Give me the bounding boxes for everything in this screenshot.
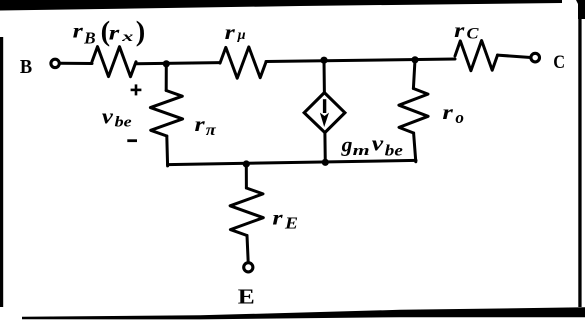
border top edge (0, 0, 562, 11)
label minus sign (127, 139, 137, 142)
wire rE bottom lead (247, 236, 248, 263)
terminal C (531, 53, 540, 62)
wire rB to rmu (136, 63, 220, 64)
svg-text:x: x (121, 30, 134, 45)
svg-text:r: r (454, 20, 464, 42)
svg-text:π: π (206, 122, 217, 139)
node dot source bottom (322, 159, 329, 166)
svg-text:C: C (553, 53, 565, 73)
resistor rC zigzag (455, 41, 498, 71)
resistor ro zigzag (399, 89, 428, 134)
node dot rE tap (243, 160, 250, 167)
wire B to rB (60, 62, 92, 65)
current source diamond (304, 93, 345, 133)
current source arrow shaft (323, 99, 326, 113)
wire source top lead (323, 60, 326, 93)
svg-text:r: r (109, 23, 120, 45)
border bottom edge (22, 307, 585, 319)
border right edge (578, 4, 581, 307)
svg-text:be: be (385, 143, 403, 160)
node dot ro top (411, 56, 418, 63)
wire rC to C (498, 55, 531, 57)
wire source bottom lead (323, 133, 326, 164)
border left edge (0, 37, 3, 307)
svg-text:v: v (372, 131, 384, 156)
resistor rE zigzag (230, 188, 263, 236)
svg-text:m: m (353, 143, 370, 159)
resistor rB zigzag (92, 47, 136, 77)
node dot source top (320, 57, 327, 64)
wire ro top lead (413, 60, 415, 89)
resistor rpi zigzag (150, 91, 182, 137)
svg-text:g: g (341, 132, 353, 156)
resistor rmu zigzag (220, 47, 266, 78)
svg-text:r: r (195, 114, 205, 136)
svg-text:B: B (20, 57, 32, 78)
wire bottom rail (168, 160, 417, 164)
svg-text:E: E (284, 213, 298, 232)
svg-text:r: r (225, 22, 235, 44)
terminal E (244, 263, 253, 272)
wire rpi top lead (165, 64, 168, 91)
wire rmu to rC (266, 59, 455, 62)
wire rpi bottom lead (165, 136, 169, 166)
svg-text:C: C (467, 25, 480, 42)
svg-text:r: r (272, 207, 282, 229)
current source arrowhead (320, 113, 329, 127)
border top-right corner (576, 0, 585, 19)
wire ro bottom lead (414, 133, 416, 162)
terminal B (51, 59, 59, 67)
svg-text:r: r (73, 20, 83, 42)
node dot B1 (rpi top) (163, 60, 170, 67)
svg-text:be: be (115, 114, 132, 130)
svg-text:B: B (83, 28, 96, 47)
svg-text:μ: μ (237, 28, 246, 43)
svg-text:v: v (102, 103, 114, 128)
svg-text:o: o (455, 108, 464, 127)
label plus sign (131, 89, 142, 92)
svg-text:r: r (442, 102, 453, 124)
svg-text:): ) (136, 17, 146, 48)
wire rE top lead (245, 164, 248, 188)
svg-text:E: E (238, 284, 255, 308)
